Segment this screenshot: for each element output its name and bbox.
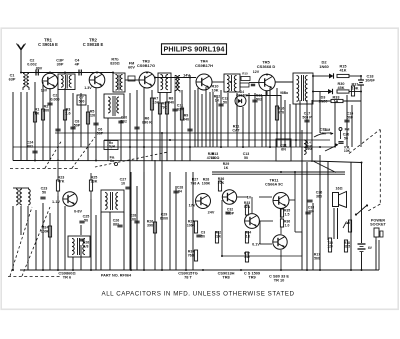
label R29 1K [223, 162, 230, 170]
label TR1 [38, 38, 58, 47]
label 1.3V [84, 86, 92, 90]
wire right vert [378, 240, 380, 270]
transistor TR6 [63, 192, 77, 206]
coil L2 FM [13, 188, 30, 205]
svg-text:1.3V: 1.3V [84, 86, 92, 90]
dashed gang horizontal [10, 168, 80, 170]
transistor TR8 [222, 190, 236, 204]
capacitor C10 [118, 116, 127, 124]
svg-text:1V: 1V [247, 196, 252, 200]
capacitor C17b [302, 112, 312, 122]
svg-text:768 A: 768 A [190, 181, 200, 185]
svg-text:PHILIPS 90RL194: PHILIPS 90RL194 [163, 45, 224, 54]
wire grid row1 [13, 75, 352, 270]
capacitor C27 [125, 187, 130, 189]
svg-text:882: 882 [27, 144, 33, 148]
label TR2 [83, 38, 104, 47]
thermistor RT [343, 220, 352, 232]
switch FM [339, 128, 350, 140]
transistor TR1 [42, 73, 58, 89]
wire TR3-TR4 [155, 77, 196, 79]
capacitor C4 [79, 70, 81, 76]
svg-text:84: 84 [178, 189, 182, 193]
svg-text:63P: 63P [9, 78, 16, 82]
label CS8033E TR10 [269, 274, 289, 283]
svg-text:1A: 1A [334, 100, 339, 104]
capacitor C3x [196, 231, 205, 239]
transistor TR10 [273, 235, 287, 249]
wire TR5 emitter [246, 91, 281, 147]
svg-text:1.5: 1.5 [285, 212, 290, 216]
label C39 10n [320, 128, 326, 136]
coil L1 (ferrite antenna) [23, 74, 29, 91]
label D2 1N60 [319, 60, 329, 69]
svg-text:ALL CAPACITORS IN MFD. UNLESS: ALL CAPACITORS IN MFD. UNLESS OTHERWISE … [102, 291, 295, 298]
label C1 63P [9, 74, 16, 82]
wire det top2 [349, 75, 361, 77]
transistor TR9 [245, 214, 260, 229]
terminal FM mid [110, 156, 118, 166]
svg-text:CAT: CAT [232, 128, 240, 132]
title box PHILIPS 90RL194 [162, 44, 227, 55]
wire grid right [302, 130, 376, 270]
svg-text:R15: R15 [242, 72, 248, 76]
battery B1 [358, 244, 373, 252]
label R13 470 [211, 152, 220, 160]
svg-text:CS9B17G: CS9B17G [137, 63, 155, 68]
svg-text:22K: 22K [215, 234, 222, 238]
wire grid row2 left [13, 196, 96, 270]
svg-text:560: 560 [314, 256, 320, 260]
svg-text:CS9B17H: CS9B17H [195, 63, 213, 68]
label R7b 820 [110, 58, 119, 66]
capacitor C23 [40, 197, 45, 199]
svg-text:16V: 16V [41, 89, 48, 93]
label TR5 [257, 60, 276, 69]
transformer T3 [158, 73, 171, 93]
dashed line to power [349, 130, 380, 212]
label R25 470 [207, 152, 216, 160]
capacitor C5 [55, 129, 60, 131]
capacitor C26 [113, 219, 123, 227]
label R12 [214, 95, 221, 103]
transformer T7 [68, 236, 90, 257]
transformer T6 [104, 94, 124, 118]
wire bus y147 [13, 146, 336, 148]
wire det2 [349, 91, 361, 93]
resistor R30 [337, 90, 349, 93]
svg-text:FM: FM [345, 128, 350, 132]
resistor R8a [128, 76, 135, 81]
dashed gang line mid [45, 137, 168, 168]
resistor R33b [244, 201, 251, 215]
power socket jack [374, 228, 383, 244]
svg-text:0.1V: 0.1V [252, 243, 260, 247]
label 16ohm [336, 187, 343, 191]
capacitor C34 [27, 141, 38, 153]
label R30 45K [338, 82, 345, 90]
transistor TR11 [273, 193, 289, 209]
svg-text:670: 670 [278, 110, 284, 114]
transistor TR5 [259, 74, 275, 90]
volume VR 10K [325, 143, 351, 153]
wire main bus [21, 72, 113, 74]
svg-text:502: 502 [256, 97, 262, 101]
speaker [333, 192, 347, 208]
transformer T2 [113, 73, 125, 92]
svg-text:0.000: 0.000 [50, 97, 59, 101]
svg-text:79C: 79C [161, 105, 168, 109]
svg-text:60V: 60V [128, 66, 135, 70]
svg-text:1.0: 1.0 [285, 223, 290, 227]
label 24V [208, 211, 215, 215]
resistor R33 [331, 99, 343, 102]
svg-text:50: 50 [201, 234, 205, 238]
svg-text:6V: 6V [368, 246, 373, 250]
capacitor C20 [338, 142, 343, 144]
resistor R36b [280, 219, 290, 227]
label C23 50 [41, 187, 48, 195]
resistor R15 [337, 74, 349, 77]
svg-text:220: 220 [89, 114, 95, 118]
svg-text:002: 002 [121, 119, 127, 123]
svg-text:882: 882 [113, 222, 119, 226]
svg-text:30P: 30P [57, 63, 64, 67]
caption text [102, 291, 295, 298]
capacitor C14b [251, 84, 255, 85]
transistor TR7 [196, 194, 211, 209]
svg-text:470A: 470A [207, 156, 216, 160]
resistor R2 [41, 109, 44, 120]
label TR11 [265, 179, 283, 187]
wire grid row2 mid [101, 133, 193, 270]
wire T4-TR5 [249, 82, 259, 84]
label R31 10K [352, 83, 359, 91]
resistor R14b [240, 83, 249, 87]
svg-text:1K: 1K [224, 166, 229, 170]
label C18 10/6F [365, 75, 375, 83]
capacitor C28 [130, 214, 140, 223]
label 0-8V [74, 210, 82, 214]
dashed gang diag A [10, 207, 32, 276]
resistor R17b [244, 252, 250, 263]
svg-text:360: 360 [316, 194, 322, 198]
label R2 200 [43, 105, 49, 113]
label R11 CAT [232, 125, 240, 133]
label FM 60V [128, 62, 135, 70]
label 14V [183, 74, 190, 78]
transformer T8 [101, 190, 124, 212]
label 0.1V [252, 243, 260, 247]
box C31 6N [276, 139, 291, 161]
svg-text:500 P: 500 P [302, 115, 312, 119]
wire det top [313, 75, 329, 77]
label C4 4P [75, 59, 81, 67]
svg-text:CS3400: CS3400 [236, 94, 248, 98]
resistor R9 [158, 102, 167, 115]
label C2 0.002 [27, 59, 37, 67]
label POWER SOCKET [370, 219, 386, 227]
capacitor C12 [218, 97, 228, 106]
svg-text:500P: 500P [226, 211, 235, 215]
svg-text:76Ω: 76Ω [188, 253, 195, 257]
label 1-1V [52, 200, 60, 204]
capacitor C16 [344, 112, 353, 122]
wire det1 [313, 91, 328, 93]
switch AM [314, 128, 334, 137]
capacitor C36 [307, 200, 312, 202]
svg-text:120: 120 [327, 245, 333, 249]
wire bus bottom [20, 269, 379, 271]
svg-text:80V: 80V [36, 67, 43, 71]
label R17 560 [314, 253, 320, 261]
svg-text:C S901B E: C S901B E [83, 42, 104, 47]
choke Rx 10uH [104, 141, 118, 150]
svg-text:340: 340 [168, 100, 174, 104]
capacitor C8 [70, 120, 80, 129]
wire audio top [212, 172, 345, 174]
dashed bottom [8, 276, 60, 278]
resistor R5 [86, 110, 95, 125]
svg-text:1N60: 1N60 [319, 64, 329, 69]
capacitor C18 [358, 76, 364, 147]
resistor R32 [215, 231, 222, 244]
svg-text:SOCKET: SOCKET [370, 223, 386, 227]
diode D3 [328, 89, 333, 94]
resistor R23 [56, 162, 59, 196]
svg-text:12V: 12V [253, 70, 260, 74]
svg-text:16Ω: 16Ω [336, 187, 343, 191]
switch S2 [355, 204, 368, 215]
wire audio net [222, 172, 302, 270]
svg-text:10μH: 10μH [107, 144, 116, 148]
svg-text:17V: 17V [189, 204, 196, 208]
svg-text:CS3668 D: CS3668 D [257, 64, 276, 69]
label C36 360 [316, 191, 323, 199]
svg-text:100K: 100K [202, 181, 211, 185]
wire bus y160 [13, 161, 362, 173]
svg-text:1.6: 1.6 [65, 112, 70, 116]
resistor R3 [63, 108, 70, 121]
svg-text:50P: 50P [97, 131, 104, 135]
capacitor C11 [172, 104, 183, 112]
resistor R35 [280, 209, 290, 218]
svg-text:0-8V: 0-8V [74, 210, 82, 214]
wire det3 [313, 100, 361, 102]
resistor R25 [89, 173, 92, 199]
label 1V [247, 196, 252, 200]
wire det vert [313, 76, 320, 133]
svg-text:50: 50 [344, 136, 348, 140]
svg-text:82.5: 82.5 [344, 245, 351, 249]
resistor R18 [344, 240, 351, 252]
coil L4 [304, 140, 313, 154]
label R10 10K [212, 85, 219, 93]
svg-text:820Ω: 820Ω [110, 62, 119, 66]
svg-text:C S9016 E: C S9016 E [38, 42, 58, 47]
label CS9015G [178, 271, 197, 280]
resistor R1 [33, 112, 36, 122]
label R6 890K [142, 117, 152, 125]
svg-text:1K: 1K [246, 234, 251, 238]
antenna [17, 44, 26, 73]
label C3P 30P [56, 59, 64, 67]
label C27 10 [120, 178, 127, 186]
resistor R8 [165, 97, 174, 115]
label C29 6000 [160, 213, 168, 221]
wire TR5-T5 [275, 81, 293, 83]
label R28b [202, 178, 211, 186]
box C7 500 [77, 95, 86, 105]
svg-text:PART NO. RF064: PART NO. RF064 [101, 274, 132, 278]
svg-text:CS66A 9C: CS66A 9C [265, 183, 283, 187]
diode D4 circle [235, 90, 248, 107]
capacitor C13b [252, 94, 262, 102]
svg-text:TR 10: TR 10 [274, 278, 285, 283]
label R28 100K [0, 0, 1, 1]
wire TR4-T4 [212, 81, 224, 83]
svg-text:390: 390 [147, 223, 153, 227]
svg-text:78 T: 78 T [184, 275, 192, 280]
label C20 50 [343, 133, 350, 141]
label R25 23K [91, 176, 98, 184]
capacitor C25 [79, 215, 89, 223]
label TR4 [195, 59, 213, 68]
label R33 1A [333, 96, 340, 104]
svg-text:50: 50 [84, 218, 88, 222]
wire bus y140 [104, 139, 330, 141]
label CS9860 TR6 [58, 271, 75, 280]
svg-text:50: 50 [244, 156, 248, 160]
label 12V [253, 70, 260, 74]
resistor R9b [180, 108, 189, 121]
svg-text:24V: 24V [208, 211, 215, 215]
capacitor C26b [79, 239, 89, 248]
capacitor C28b [173, 186, 183, 194]
svg-text:1-1V: 1-1V [52, 200, 60, 204]
label 16V [41, 89, 48, 93]
svg-text:840: 840 [183, 117, 189, 121]
svg-text:TR 6: TR 6 [63, 275, 72, 280]
svg-text:50P: 50P [74, 123, 81, 127]
svg-text:6000: 6000 [160, 216, 168, 220]
svg-text:50: 50 [42, 190, 46, 194]
wire bus y133 [55, 132, 312, 134]
svg-text:106K: 106K [187, 223, 196, 227]
resistor R30b [188, 250, 198, 262]
resistor R15b [241, 72, 250, 81]
svg-text:41K: 41K [340, 69, 347, 73]
label PART NO RF064 [101, 274, 132, 278]
resistor A7 [150, 97, 159, 111]
svg-text:10/6F: 10/6F [365, 79, 375, 83]
svg-text:TR8: TR8 [222, 275, 230, 280]
resistor R16 [275, 106, 284, 120]
label CS1509 TR9 [244, 271, 261, 280]
label R27 [190, 178, 200, 186]
capacitor C2 [36, 70, 38, 76]
svg-text:100K: 100K [41, 229, 50, 233]
resistor R34 [245, 231, 251, 244]
transistor TR2 [89, 72, 105, 88]
svg-text:27K: 27K [218, 181, 225, 185]
capacitor C14 [187, 129, 192, 131]
label R23 47K [58, 176, 65, 184]
capacitor C32 [225, 208, 234, 216]
label D3 1N60 [318, 96, 327, 104]
capacitor C35 [134, 127, 139, 129]
label TR3 [137, 59, 155, 68]
resistor R29b [187, 220, 198, 234]
label 98Ba [280, 91, 288, 95]
label C13 50 [243, 152, 250, 160]
transformer T1 [58, 74, 75, 90]
transformer T4 [224, 74, 240, 92]
transistor TR3 [139, 72, 155, 88]
svg-text:45K: 45K [338, 86, 345, 90]
svg-text:-AM: -AM [324, 128, 330, 132]
resistor R31 [351, 86, 354, 96]
svg-text:98Ba: 98Ba [280, 91, 288, 95]
svg-text:10: 10 [121, 181, 125, 185]
svg-text:500: 500 [79, 99, 85, 103]
capacitor C6 [93, 123, 103, 135]
coil T3b [175, 75, 180, 93]
svg-text:100: 100 [130, 217, 136, 221]
svg-text:4P: 4P [75, 63, 80, 67]
label CS9013H TR8 [218, 271, 235, 280]
wire T2-TR3 [125, 79, 139, 81]
label 80V [36, 67, 43, 71]
transformer T5 detector [293, 73, 313, 104]
label R15 41K [340, 65, 347, 73]
resistor M24 [41, 226, 52, 238]
capacitor C2b [47, 94, 59, 105]
svg-text:890 K: 890 K [142, 120, 152, 124]
label 17V [189, 204, 196, 208]
label R1 1K [35, 108, 40, 116]
transformer T35 [327, 238, 333, 252]
svg-text:1K: 1K [215, 98, 220, 102]
transistor TR4 [196, 74, 212, 90]
dashed gang diag B [22, 207, 50, 276]
svg-text:Ca: Ca [110, 159, 114, 163]
svg-text:50: 50 [223, 100, 227, 104]
resistor R36a [218, 177, 225, 191]
svg-text:6N: 6N [281, 147, 286, 151]
svg-text:TR9: TR9 [248, 275, 256, 280]
svg-text:50F: 50F [347, 115, 354, 119]
diode D2 [329, 73, 334, 78]
resistor R26 [147, 220, 157, 234]
svg-text:52A: 52A [244, 205, 251, 209]
capacitor C33 [305, 206, 314, 214]
svg-text:10K: 10K [352, 87, 359, 91]
